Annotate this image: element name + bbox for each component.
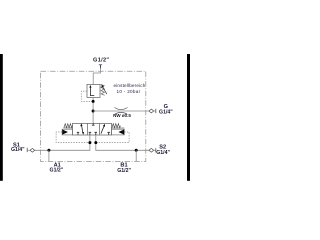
V1 cell2 bottom blocked stub b <box>95 132 97 135</box>
directional valve V1 body <box>73 123 112 135</box>
orifice restriction <box>115 108 128 110</box>
V1 right pilot triangle <box>118 130 124 135</box>
pressure reducing valve U1 body <box>87 84 100 97</box>
V1 left pilot box <box>62 129 72 135</box>
right black bar <box>187 54 191 181</box>
svg-text:G1/2": G1/2" <box>117 168 131 174</box>
port G symbol <box>149 109 154 113</box>
V1 divider left <box>87 123 89 135</box>
node gauge junction <box>92 110 95 113</box>
enclosure dash-dot boundary <box>41 71 146 161</box>
pilot line right dashed <box>96 132 129 143</box>
svg-text:einstellbereich: einstellbereich <box>113 83 145 88</box>
node pilot junction <box>92 100 95 103</box>
U1 adjustment arrow <box>103 87 107 95</box>
V1 cell3 diagonal flow arrow <box>101 125 105 133</box>
node B1 branch <box>135 149 138 152</box>
V1 cell1 through-flow arrows <box>81 125 83 134</box>
wire valve A down <box>35 135 90 150</box>
U1 internal flow arrow <box>90 87 94 96</box>
V1 divider right <box>99 123 101 135</box>
left black bar <box>0 54 3 181</box>
V1 cell3 blocked stub <box>108 132 110 135</box>
wire B1 down <box>135 150 137 161</box>
svg-text:G1/4": G1/4" <box>11 147 25 153</box>
svg-text:G1/4": G1/4" <box>159 110 173 116</box>
U1 pilot line dashed <box>81 91 92 101</box>
svg-text:G1/2": G1/2" <box>93 57 109 63</box>
node pilot A <box>88 141 91 144</box>
node A1 branch <box>47 149 50 152</box>
port S1 symbol <box>26 148 28 152</box>
wire A1 down <box>48 150 50 161</box>
node pilot B <box>94 141 97 144</box>
svg-text:NW ø0.5: NW ø0.5 <box>113 113 131 118</box>
pilot line left dashed <box>56 132 90 143</box>
wire T down <box>93 69 100 85</box>
V1 cell2 top blocked stub P <box>92 123 94 125</box>
V1 left spring <box>64 124 73 128</box>
V1 right spring <box>112 124 121 128</box>
V1 cell1 blocked stub <box>77 132 79 135</box>
wire to gauge port G <box>93 110 149 112</box>
V1 right spring shelf <box>112 127 125 129</box>
V1 right pilot box <box>112 129 125 135</box>
V1 left spring shelf <box>64 127 73 129</box>
V1 cell2 bottom blocked stub a <box>89 132 91 135</box>
U1 spring <box>101 84 105 95</box>
port S2 symbol <box>149 148 154 152</box>
V1 left pilot triangle <box>62 130 68 135</box>
svg-text:G1/4": G1/4" <box>156 150 170 156</box>
svg-text:G1/2": G1/2" <box>50 168 64 174</box>
wire valve B down <box>96 135 149 150</box>
svg-text:10 - 20bar: 10 - 20bar <box>117 89 141 94</box>
wire U1 output down <box>92 97 94 123</box>
